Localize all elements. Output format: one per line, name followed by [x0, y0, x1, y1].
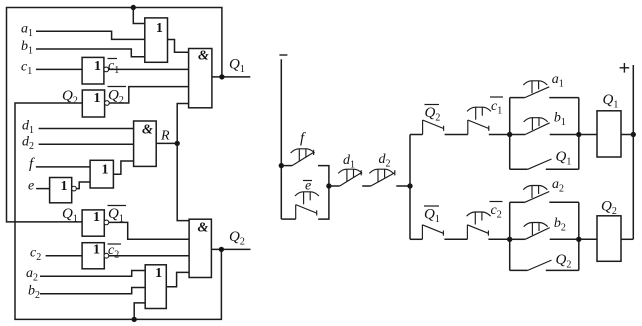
wire d2 to node B: [396, 185, 410, 187]
svg-text:f: f: [29, 156, 35, 172]
wire U11 output Q2: [211, 248, 250, 250]
wire Q2-bar to AND U4: [109, 87, 188, 103]
bubble U3 output: [105, 101, 110, 106]
svg-text:c2: c2: [30, 246, 41, 264]
wire a2 branch lead: [510, 201, 525, 203]
contact d1 (NO): [340, 173, 362, 186]
svg-text:a2: a2: [26, 266, 38, 284]
node Q2 output: [219, 247, 223, 251]
svg-text:R: R: [160, 129, 170, 144]
svg-text:Q1: Q1: [62, 206, 78, 225]
contact d2 (NO): [371, 173, 395, 186]
node C: [508, 132, 512, 136]
wire c2-bar to AND U11: [109, 255, 189, 257]
wire node A to d1: [329, 185, 340, 187]
svg-text:a1: a1: [21, 22, 33, 40]
wire left (minus) rail: [280, 59, 282, 219]
svg-text:f: f: [300, 131, 306, 147]
bubble U9 output: [104, 253, 109, 258]
svg-text:c2: c2: [108, 243, 119, 260]
wire to coil Q2: [579, 238, 597, 240]
wire right join rail (Q1 group): [578, 98, 580, 170]
wire lower rung start: [410, 238, 422, 240]
svg-text:a2: a2: [552, 177, 564, 195]
node coil Q1 left: [577, 132, 581, 136]
node coil Q2 left: [577, 237, 581, 241]
svg-text:b1: b1: [21, 39, 33, 57]
wire input b2: [40, 288, 145, 294]
wire Q1-bar to c2-bar: [444, 238, 467, 240]
node: tap on Q1 feedback to OR gate U1: [131, 5, 135, 9]
wire U5 output R: [156, 142, 177, 144]
wire input c2: [46, 255, 83, 257]
svg-text:1: 1: [61, 179, 68, 194]
node: tap on Q2 feedback to OR gate U10: [132, 317, 136, 321]
AND gate U5 (R): [134, 121, 157, 166]
wire input b1: [36, 49, 145, 57]
wire input f: [36, 166, 90, 168]
svg-text:d2: d2: [22, 135, 34, 153]
svg-text:a1: a1: [552, 72, 564, 90]
wire b1 branch to right rail: [550, 134, 579, 136]
wire c2-bar to node D: [488, 238, 509, 240]
wire coil Q2 to plus rail: [621, 238, 633, 240]
wire b1 branch lead: [510, 134, 526, 136]
wire Q2 branch to right rail: [546, 269, 579, 271]
wire U1 output to AND U4: [168, 40, 189, 53]
svg-text:b2: b2: [28, 284, 40, 302]
svg-text:Q1: Q1: [603, 92, 619, 111]
svg-text:c1: c1: [108, 58, 119, 76]
svg-text:Q1: Q1: [229, 57, 245, 76]
wire c1-bar to node C: [489, 134, 510, 136]
wire b2 branch lead: [510, 238, 526, 240]
contact Q1 (NO plain): [528, 159, 552, 169]
AND gate U11 (Q2): [189, 219, 211, 277]
node plus rail / coil Q1: [631, 132, 635, 136]
minus terminal: [279, 54, 287, 56]
OR gate U10 (a2,b2,Q2): [145, 265, 166, 309]
contact e-bar (NC): [281, 218, 295, 220]
wire input e: [36, 188, 50, 190]
svg-text:Q2: Q2: [229, 229, 245, 248]
inverter U3 (Q2): [82, 90, 104, 117]
svg-text:c1: c1: [491, 99, 502, 117]
contact a1 (NO): [525, 87, 550, 98]
svg-text:d2: d2: [379, 152, 391, 170]
contact Q1-bar (NC): [421, 225, 423, 240]
wire upper rung start: [410, 134, 423, 136]
wire Q2-bar to c1-bar: [445, 134, 468, 136]
wire a2 branch to right rail: [549, 201, 579, 203]
node D: [508, 237, 512, 241]
svg-text:c1: c1: [21, 60, 32, 78]
wire Q1 branch lead: [510, 168, 528, 170]
wire d1 to d2: [362, 185, 371, 187]
wire right join rail (Q2 group): [578, 202, 580, 270]
svg-text:&: &: [198, 221, 209, 236]
svg-text:&: &: [198, 49, 209, 64]
coil Q2: [597, 216, 621, 261]
wire feedback tap up into OR U10: [134, 303, 145, 320]
svg-text:b2: b2: [554, 216, 566, 234]
wire c1-bar to AND U4: [109, 68, 189, 70]
coil Q1: [597, 111, 621, 157]
svg-text:Q2: Q2: [425, 105, 441, 124]
wire b2 branch to right rail: [550, 238, 579, 240]
wire Q2 feedback loop: bottom/left: [15, 103, 221, 319]
wire input a1: [36, 31, 145, 39]
wire Q1-bar to AND U11: [109, 222, 189, 239]
wire Q1 branch to right rail: [546, 168, 579, 170]
inverter U8 (Q1): [82, 210, 104, 236]
contact c2-bar (NC): [466, 225, 468, 240]
wire e-bar branch to node A: [318, 186, 329, 219]
svg-text:1: 1: [155, 266, 162, 281]
svg-text:d1: d1: [22, 119, 34, 137]
wire U4 output Q1: [212, 76, 250, 78]
wire Q1 feedback loop: top/left frame: [7, 8, 222, 222]
wire input d2: [39, 143, 134, 145]
wire R down to AND U11 top input: [177, 143, 189, 220]
svg-text:1: 1: [156, 21, 163, 36]
svg-text:Q1: Q1: [424, 207, 440, 226]
svg-text:1: 1: [93, 210, 100, 225]
svg-text:Q2: Q2: [556, 252, 572, 271]
wire feedback tap down into OR U1: [133, 8, 145, 24]
wire input d1: [39, 128, 134, 130]
inverter U9 (c2): [82, 243, 104, 269]
AND gate U4 (Q1): [189, 49, 212, 108]
contact f (NO): [281, 165, 292, 167]
wire e-bar to OR U7: [77, 182, 91, 189]
wire to coil Q1: [579, 134, 597, 136]
svg-text:1: 1: [102, 163, 109, 178]
bubble U6 output: [72, 186, 77, 191]
contact b1 (NO): [525, 123, 550, 135]
wire input c1: [36, 68, 82, 70]
svg-text:1: 1: [94, 59, 101, 74]
node Q1 output: [220, 75, 224, 79]
bubble U2 output: [104, 67, 109, 72]
wire f branch to node A: [318, 166, 329, 186]
wire U7 output to AND U5: [113, 161, 133, 174]
svg-text:d1: d1: [343, 153, 355, 171]
svg-text:Q2: Q2: [62, 88, 78, 107]
contact a2 (NO): [525, 192, 550, 203]
wire U10 output to AND U11: [166, 272, 189, 286]
node R: [175, 141, 179, 145]
wire R into AND U4 bottom input: [177, 104, 188, 144]
wire a1 branch to right rail: [549, 97, 579, 99]
svg-text:c2: c2: [491, 203, 502, 221]
node A (f OR e-bar): [327, 184, 331, 188]
svg-text:b1: b1: [554, 111, 566, 129]
OR gate U7 (f, e-bar): [90, 160, 113, 188]
svg-text:e: e: [28, 179, 34, 194]
node rail / f branch: [279, 163, 283, 167]
svg-text:1: 1: [94, 91, 101, 106]
svg-text:&: &: [142, 123, 153, 138]
wire a1 branch lead: [510, 97, 525, 99]
wire node B vertical (split to two rungs): [409, 135, 411, 240]
contact b2 (NO): [525, 228, 550, 240]
contact c1-bar (NC): [467, 120, 469, 135]
node B: [408, 184, 412, 188]
wire Q2 branch lead: [510, 269, 528, 271]
bubble U8 output: [104, 220, 109, 225]
wire right (plus) rail: [632, 65, 634, 239]
wire node D rail (a2/b2/Q2 parallel): [509, 202, 511, 270]
OR gate U1 (a1,b1,Q1): [145, 18, 168, 62]
wire coil Q1 to plus rail: [621, 134, 633, 136]
svg-text:1: 1: [93, 243, 100, 258]
contact Q2-bar (NC): [422, 120, 424, 135]
plus terminal: [620, 67, 630, 69]
inverter U6 (e): [50, 178, 72, 203]
svg-text:Q2: Q2: [601, 199, 617, 218]
inverter U2 (c1): [82, 57, 104, 84]
svg-text:Q1: Q1: [556, 149, 572, 168]
wire node C rail (a1/b1/Q1 parallel): [509, 98, 511, 170]
wire input a2: [40, 271, 145, 277]
contact Q2 (NO plain): [528, 260, 552, 270]
